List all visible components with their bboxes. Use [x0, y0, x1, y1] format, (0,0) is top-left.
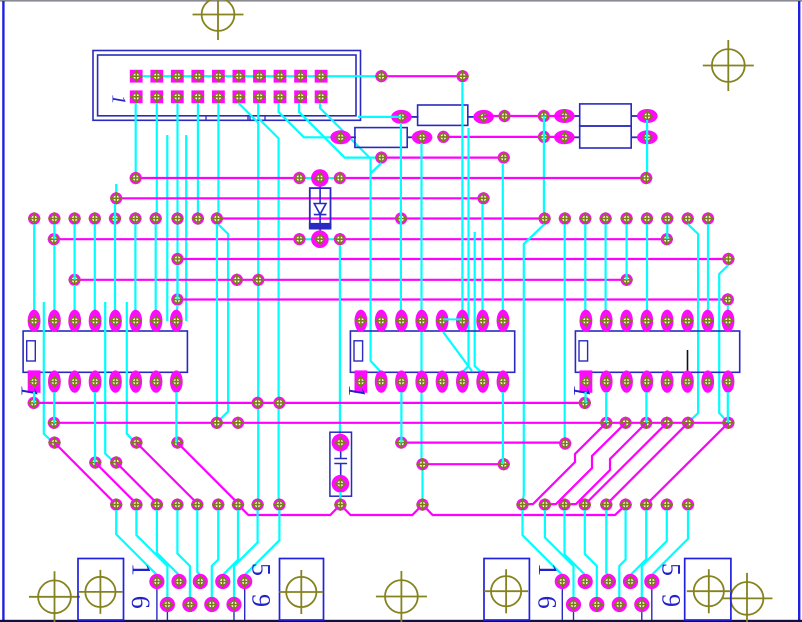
IC U2 pads bottom row — [355, 370, 510, 392]
via row y219 right group — [538, 212, 714, 224]
connector J3 pin lines — [562, 582, 652, 621]
wire col x115 — [114, 204, 116, 315]
wire IC2 stubs — [401, 392, 503, 464]
IC U2 body DIP-16 — [350, 331, 514, 372]
IC U1 body DIP-16 — [23, 331, 187, 372]
wire J1 pad1 column — [135, 103, 137, 178]
wire diag L2 — [95, 463, 136, 504]
mounting target top-right — [703, 40, 754, 91]
wire J1 pad9 column — [299, 103, 377, 158]
connector J2 pin lines — [157, 582, 245, 621]
wire bus y515 — [238, 505, 626, 515]
wire col x217 — [216, 224, 218, 423]
wire diag R1 — [523, 423, 607, 505]
label J1 pin1 — [108, 95, 130, 105]
label J3 pin9 — [657, 594, 686, 607]
wire extra column x167 — [166, 135, 168, 321]
via pads y280 — [68, 274, 632, 286]
wire J1 pad5 column — [217, 103, 219, 219]
via row y505 left — [110, 498, 429, 510]
IC U3 body DIP-16 — [575, 331, 739, 372]
connector J1 pads row2 — [130, 90, 328, 103]
via pads y464 — [416, 458, 510, 470]
wire col x728 — [727, 305, 729, 315]
wire diag R5 — [606, 423, 688, 505]
wire J1 pad8 column — [279, 103, 332, 137]
svg-text:1: 1 — [533, 563, 562, 576]
wire col x503 — [502, 163, 504, 315]
svg-text:1: 1 — [568, 386, 594, 398]
via pads net C — [437, 131, 550, 143]
wire through-column x127 — [127, 302, 135, 443]
wire through-column x44 — [44, 302, 53, 443]
label J3 pin6 — [533, 596, 562, 609]
mounting bracket right — [685, 559, 731, 621]
wire IC1 stubs — [34, 392, 176, 463]
wire diag L4 — [136, 443, 197, 504]
wire J1 pad10 column — [320, 103, 371, 159]
wire cyan J1 to R1 — [358, 116, 401, 118]
board frame bottom edge — [0, 620, 802, 622]
connector J3 pads bottom row — [566, 597, 650, 612]
diode D1 cathode pads — [293, 230, 346, 248]
label J2 pin9 — [247, 594, 276, 607]
wire col x565 — [564, 224, 566, 444]
wire R2 leads — [350, 136, 414, 138]
wire col x401 — [400, 123, 402, 315]
wire trace y219 — [217, 217, 545, 219]
wire through-column x105 — [105, 302, 114, 463]
svg-text:6: 6 — [126, 596, 155, 609]
wire magenta R1 to RN1 — [484, 115, 565, 117]
wire IC2 body diagonal — [443, 332, 472, 371]
wire col x719 — [719, 265, 728, 423]
wire trace y158 — [381, 157, 503, 159]
svg-text:1: 1 — [16, 386, 42, 398]
diode D1 anode pads — [293, 169, 346, 187]
IC U1 pads top row — [28, 310, 183, 332]
via pads mid-left — [48, 436, 183, 468]
wire col x647 — [646, 224, 648, 315]
via pads y299 — [171, 293, 734, 305]
via pads y403 — [28, 397, 592, 409]
mounting target top-left — [193, 0, 244, 40]
via row y505 right — [516, 498, 694, 510]
wire col x370 — [371, 159, 382, 372]
wire IC2 oval5-6 link — [443, 318, 462, 320]
svg-text:9: 9 — [247, 594, 276, 607]
wire trace y280 — [75, 279, 627, 281]
wire J1 pad5 branch column — [217, 223, 228, 423]
wire RN1 leads — [574, 116, 639, 137]
wire col x606 — [604, 224, 606, 315]
wire trace y178 — [136, 177, 647, 179]
resistor R2 pads — [330, 130, 432, 144]
wire col x667 — [666, 224, 668, 239]
resistor RN1 body — [580, 104, 632, 148]
wire cyan column x544 — [543, 116, 546, 218]
mounting bracket left — [78, 559, 124, 621]
wire trace y464 — [423, 463, 504, 465]
connector J1 pads row1 — [130, 70, 328, 83]
wire col x482 — [481, 204, 483, 315]
wire J1 pad7 column — [258, 103, 279, 505]
wire J1 row1 bus cyan — [136, 75, 381, 77]
wire fan to J2 — [116, 510, 279, 605]
via pads y443 — [395, 436, 571, 449]
via pads y178 — [130, 172, 653, 184]
resistor R2 body — [355, 128, 407, 148]
via pad y219 middle — [395, 212, 407, 224]
label U1 pin1 — [16, 386, 42, 398]
label J3 pin1 — [533, 563, 562, 576]
wire trace y423 — [54, 422, 729, 424]
wire diag R3 — [565, 423, 647, 505]
wire col x340 — [339, 245, 341, 443]
wire diag R6 — [646, 423, 728, 505]
wire trace y239 — [54, 238, 667, 240]
via row y219 left group — [28, 212, 223, 224]
svg-text:6: 6 — [533, 596, 562, 609]
via pads net B — [498, 110, 550, 122]
via pads y158 — [375, 151, 510, 163]
wire col x585 — [584, 224, 586, 315]
wire col x627 — [625, 224, 627, 280]
mounting bracket center-left — [279, 559, 323, 621]
wire diag L5 — [177, 443, 238, 504]
wire col x135 — [134, 224, 136, 315]
resistor R1 pads — [391, 110, 494, 124]
resistor R1 body — [418, 105, 468, 125]
wire IC3 stubs — [586, 392, 728, 423]
mounting bracket center-right — [484, 559, 529, 621]
IC U3 pads bottom row — [580, 370, 735, 392]
svg-text:1: 1 — [343, 386, 369, 398]
svg-text:5: 5 — [657, 563, 686, 576]
wire diag L3 — [116, 463, 157, 504]
connector J1 body 2x10 header — [93, 51, 361, 121]
label J2 pin1 — [127, 563, 156, 576]
label U3 pin1 — [568, 386, 594, 398]
board frame top edge — [0, 0, 802, 2]
wire trace y198 — [116, 184, 483, 198]
capacitor C1 body — [330, 432, 352, 496]
wire trace y299 — [177, 298, 727, 300]
wire J1 pad4 column — [197, 103, 199, 219]
wire R1 leads — [411, 116, 476, 118]
wire col x698 — [688, 224, 698, 423]
connector J2 pads top row — [149, 574, 252, 589]
wire extra column x186 — [185, 135, 187, 321]
wire J1 pad2 column — [156, 103, 158, 219]
connector J3 pads top row — [555, 574, 660, 589]
diode D1 body — [309, 183, 332, 234]
wire magenta R2 to RN1 — [443, 136, 564, 138]
wire fan to J3 — [523, 510, 689, 605]
wire col x34 — [33, 224, 35, 315]
wire col x95 — [94, 224, 96, 315]
wire col x422 — [422, 143, 423, 505]
wire diag L1 — [55, 443, 117, 505]
capacitor C1 pads — [332, 434, 350, 493]
svg-text:9: 9 — [657, 594, 686, 607]
wire col x524 — [523, 224, 545, 505]
resistor RN1 pads — [554, 109, 657, 144]
via pads y423 — [48, 417, 735, 429]
mounting target bottom-right — [722, 573, 773, 622]
connector J2 pads bottom row — [160, 597, 242, 612]
label J2 pin5 — [247, 563, 276, 576]
label J2 pin6 — [126, 596, 155, 609]
board frame right edge — [798, 1, 800, 620]
wire col x475 — [475, 232, 482, 373]
wire C1 to via — [339, 492, 341, 505]
wire col x468 — [463, 128, 469, 372]
wire col x462 — [461, 82, 463, 315]
wire diag R2 — [545, 423, 626, 505]
via pads net A — [375, 70, 469, 82]
label J3 pin5 — [657, 563, 686, 576]
wire col x708 — [707, 224, 709, 315]
via pads y259 — [171, 253, 734, 265]
IC U3 pads top row — [580, 310, 735, 332]
wire col x177 — [176, 265, 177, 315]
svg-text:1: 1 — [127, 563, 156, 576]
wire col x54 — [53, 224, 55, 315]
wire trace y403 — [34, 402, 585, 404]
board frame left edge — [2, 1, 4, 620]
wire col x156 — [155, 224, 157, 315]
IC U1 pads bottom row — [28, 370, 183, 392]
wire J1 pad3 column — [176, 103, 178, 300]
IC U2 pads top row — [355, 310, 510, 332]
via pads y239 — [48, 233, 673, 245]
mounting target bottom-left — [29, 571, 80, 622]
wire net A top — [381, 75, 462, 77]
wire cyan RN1 to pad178 — [646, 120, 648, 172]
wire trace y259 — [178, 258, 729, 260]
wire col x75 — [73, 224, 75, 315]
wire trace y443 — [401, 442, 565, 444]
svg-text:1: 1 — [108, 95, 130, 105]
label U2 pin1 — [343, 386, 369, 398]
wire J1 pad6 column — [239, 103, 259, 505]
svg-text:5: 5 — [247, 563, 276, 576]
wire diag R4 — [585, 423, 667, 505]
via pads y198 — [110, 192, 490, 204]
mounting target bottom-center — [376, 571, 427, 622]
